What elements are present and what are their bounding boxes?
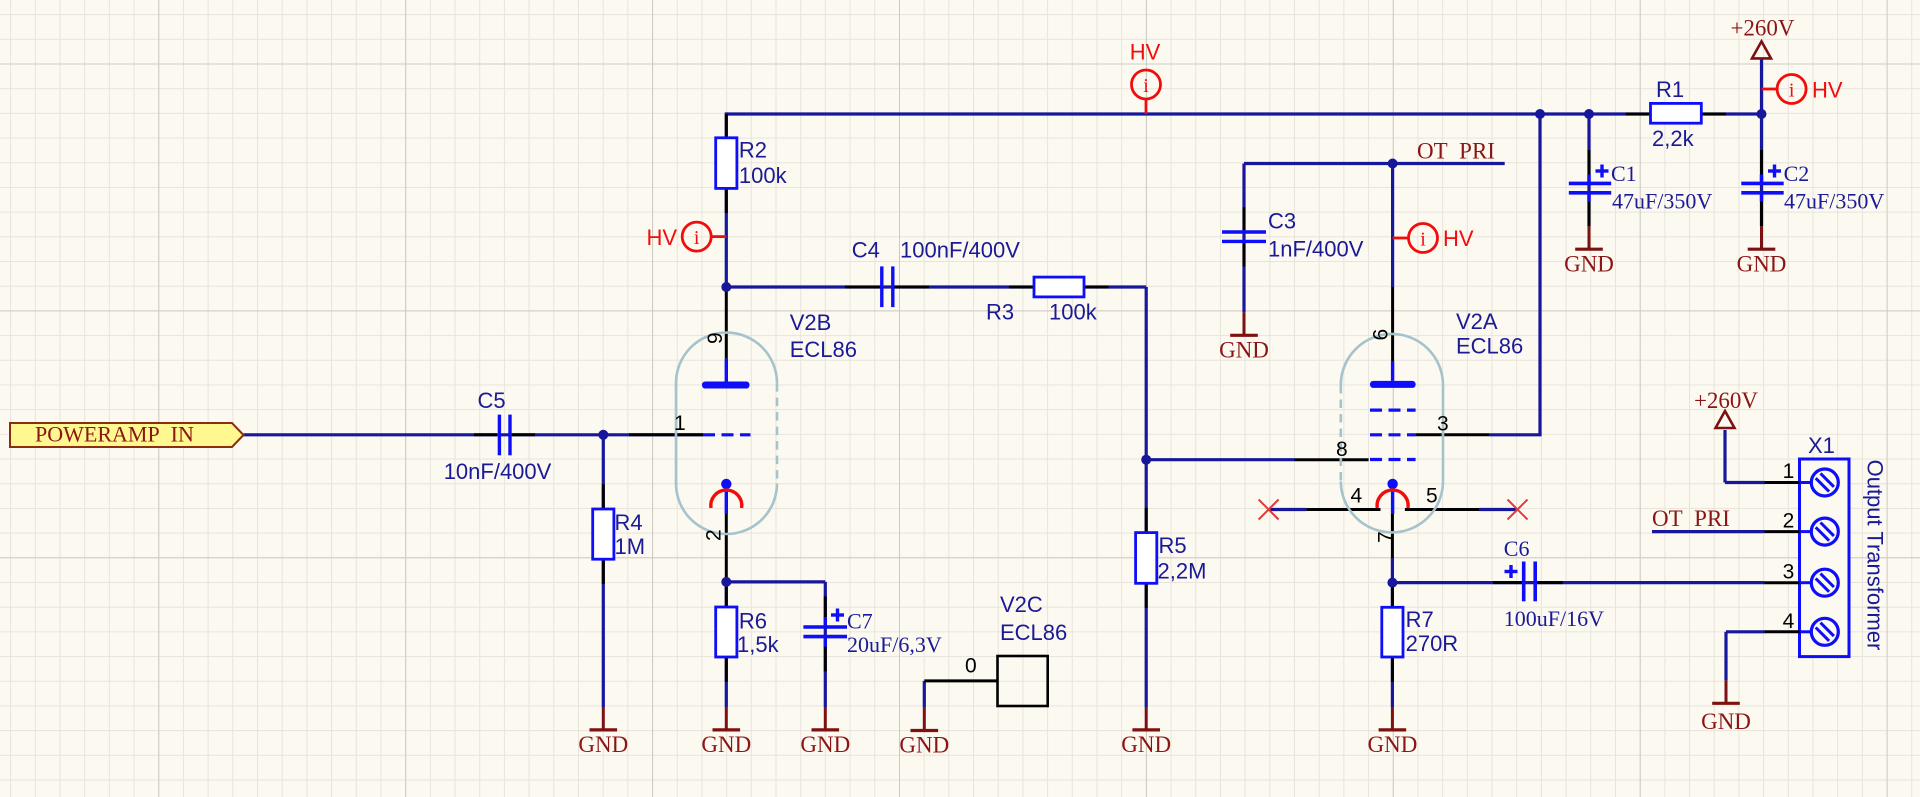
resistor R4 [593, 509, 614, 559]
svg-text:1,5k: 1,5k [737, 632, 780, 657]
svg-text:5: 5 [1426, 485, 1438, 508]
R6 label [739, 609, 767, 634]
svg-text:C2: C2 [1784, 161, 1810, 186]
X1 pin number 3 [1783, 561, 1795, 584]
svg-text:HV: HV [646, 225, 677, 250]
C1 label [1611, 161, 1637, 186]
resistor R7 [1382, 607, 1403, 657]
V2B control grid (dashed) [703, 433, 751, 436]
svg-text:ECL86: ECL86 [790, 337, 857, 362]
resistor R5 [1136, 533, 1157, 584]
svg-text:1: 1 [1783, 460, 1795, 483]
svg-text:20uF/6,3V: 20uF/6,3V [847, 632, 942, 657]
ground (R6) [701, 707, 751, 757]
svg-text:X1: X1 [1808, 433, 1835, 458]
svg-text:ECL86: ECL86 [1000, 620, 1067, 645]
R5 value 2,2M [1158, 559, 1207, 584]
wire heater pin 4 stub [1269, 508, 1307, 511]
svg-text:C7: C7 [847, 609, 873, 634]
ground (C2) [1737, 226, 1787, 276]
wire V2B plate row (junction to C4/R3) [726, 285, 1146, 288]
R1 value 2,2k [1652, 126, 1695, 151]
svg-text:C1: C1 [1611, 161, 1637, 186]
V2A pin number 3 [1437, 413, 1449, 436]
wire R4 branch vertical [602, 435, 605, 707]
C2 label [1784, 161, 1810, 186]
svg-text:ECL86: ECL86 [1456, 334, 1523, 359]
R3 value 100k [1049, 300, 1098, 325]
svg-text:9: 9 [704, 332, 727, 344]
tube pin leads (black) [629, 287, 1489, 583]
wire X1 pin 4 to GND [1726, 632, 1765, 681]
tube V2B envelope [676, 333, 777, 534]
svg-text:+260V: +260V [1694, 388, 1758, 413]
svg-text:7: 7 [1375, 531, 1398, 543]
wire OT_PRI stub to X1 pin 2 [1652, 530, 1765, 533]
V2A part type ECL86 [1456, 334, 1523, 359]
svg-text:GND: GND [899, 733, 949, 758]
R7 label [1406, 607, 1434, 632]
svg-text:C6: C6 [1504, 536, 1530, 561]
power +260V (at X1) [1694, 388, 1758, 428]
X1 pin number 4 [1783, 610, 1795, 633]
V2B heater arc [711, 490, 742, 508]
X1 pin number 2 [1783, 510, 1795, 533]
V2A grids g1 g2 g3 (dashed) [1370, 410, 1416, 459]
svg-text:POWERAMP IN: POWERAMP IN [35, 422, 194, 447]
svg-text:100uF/16V: 100uF/16V [1504, 606, 1604, 631]
svg-text:C5: C5 [478, 388, 506, 413]
V2B part type ECL86 [790, 337, 857, 362]
C5 label [478, 388, 506, 413]
resistor R3 [1034, 277, 1084, 297]
V2A cathode [1387, 479, 1397, 514]
ground (R5) [1121, 707, 1171, 757]
ground (C3) [1219, 312, 1269, 362]
wire junction dots [598, 109, 1766, 588]
HV parameter set (top) [1130, 40, 1161, 115]
svg-text:GND: GND [1121, 732, 1171, 757]
wire C7 branch [726, 582, 825, 707]
svg-text:10nF/400V: 10nF/400V [444, 459, 552, 484]
X1 comment Output Transformer [1863, 460, 1888, 651]
capacitor C2 (polarized) [1741, 165, 1783, 202]
C4 label [852, 238, 880, 263]
C6 label [1504, 536, 1530, 561]
svg-text:V2B: V2B [790, 310, 832, 335]
svg-text:OT PRI: OT PRI [1652, 506, 1730, 531]
wire heater pin 5 stub [1479, 508, 1518, 511]
V2A heater arc [1377, 490, 1408, 508]
capacitor C6 (polarized) [1505, 562, 1536, 602]
svg-text:1M: 1M [615, 534, 646, 559]
net label OT_PRI (at X1) [1652, 506, 1730, 531]
C3 label [1268, 209, 1296, 234]
svg-text:2,2k: 2,2k [1652, 126, 1695, 151]
svg-text:100k: 100k [1049, 300, 1098, 325]
svg-text:V2A: V2A [1456, 309, 1498, 334]
wire C6 row (node to X1 pin 3) [1392, 581, 1764, 584]
R2 value 100k [739, 163, 788, 188]
ground (R7) [1367, 707, 1417, 757]
designator V2C [1000, 592, 1043, 617]
ground (C7) [800, 707, 850, 757]
resistor R6 [716, 607, 737, 657]
R4 label [615, 510, 643, 535]
svg-text:4: 4 [1351, 485, 1363, 508]
capacitor C4 [882, 266, 893, 307]
svg-text:GND: GND [1701, 709, 1751, 734]
svg-text:C4: C4 [852, 238, 880, 263]
svg-text:47uF/350V: 47uF/350V [1784, 189, 1884, 214]
svg-text:GND: GND [701, 732, 751, 757]
R4 value 1M [615, 534, 646, 559]
HV parameter set (+260V rail) [1762, 75, 1843, 104]
no-connect X pin 4 [1259, 500, 1279, 520]
V2A pin number 7 [1375, 531, 1398, 543]
svg-text:GND: GND [1564, 251, 1614, 276]
V2B anode plate [702, 359, 750, 389]
V2B cathode [721, 479, 731, 514]
wire C1 branch [1587, 114, 1590, 226]
wire C3 branch vertical [1242, 164, 1245, 313]
wire OT_PRI upper (C3 row) [1244, 162, 1505, 165]
HV parameter set (V2A) [1393, 224, 1474, 253]
X1 pin number 1 [1783, 460, 1795, 483]
power +260V (top right) [1730, 15, 1794, 58]
svg-text:HV: HV [1812, 78, 1843, 103]
wire V2A pin3 riser [1489, 114, 1541, 435]
wire R3 to mid node vertical [1145, 287, 1148, 460]
svg-text:8: 8 [1336, 438, 1348, 461]
V2A pin number 8 [1336, 438, 1348, 461]
svg-text:R2: R2 [739, 138, 767, 163]
svg-text:GND: GND [1367, 732, 1417, 757]
designator V2A [1456, 309, 1498, 334]
V2B pin number 2 [703, 529, 726, 541]
resistor R1 [1651, 103, 1702, 123]
C6 value 100uF/16V [1504, 606, 1604, 631]
C2 value 47uF/350V [1784, 189, 1884, 214]
wire V2A plate branch vertical [1391, 164, 1394, 288]
svg-text:GND: GND [1219, 337, 1269, 362]
svg-text:R5: R5 [1159, 533, 1187, 558]
V2C pin number 0 [965, 655, 977, 678]
wire input row (port to V2B pin 1) [244, 433, 704, 436]
wire mid node to V2A pin 8 [1146, 458, 1294, 461]
svg-text:HV: HV [1443, 226, 1474, 251]
svg-text:0: 0 [965, 655, 977, 678]
V2C pin 0 [924, 679, 997, 682]
wire +260V to X1 pin 1 [1725, 430, 1765, 483]
ground (C1) [1564, 226, 1614, 276]
V2A anode plate [1370, 361, 1416, 388]
wire C2 branch [1760, 114, 1763, 226]
svg-text:3: 3 [1437, 413, 1449, 436]
svg-text:i: i [1143, 75, 1149, 97]
wire R2 branch vertical [725, 112, 728, 287]
tube section V2C box [998, 656, 1048, 706]
V2B pin number 9 [704, 332, 727, 344]
V2A pin number 6 [1370, 329, 1393, 341]
wire V2C pin 0 to GND [923, 681, 926, 708]
svg-text:GND: GND [800, 732, 850, 757]
R2 label [739, 138, 767, 163]
svg-text:1: 1 [674, 412, 686, 435]
capacitor C3 [1222, 232, 1266, 241]
capacitor C1 (polarized) [1569, 165, 1611, 202]
R5 label [1159, 533, 1187, 558]
designator X1 [1808, 433, 1835, 458]
svg-text:270R: 270R [1406, 631, 1459, 656]
svg-text:C3: C3 [1268, 209, 1296, 234]
port POWERAMP_IN [10, 422, 244, 448]
svg-text:47uF/350V: 47uF/350V [1612, 189, 1712, 214]
svg-text:100nF/400V: 100nF/400V [900, 238, 1020, 263]
wire V2A cathode to R7/C6 node [1391, 558, 1394, 707]
V2A pin number 5 [1426, 485, 1438, 508]
C5 value 10nF/400V [444, 459, 552, 484]
designator V2B [790, 310, 832, 335]
wire V2B cathode to R6/C7 node [725, 583, 728, 707]
svg-text:2,2M: 2,2M [1158, 559, 1207, 584]
V2B pin number 1 [674, 412, 686, 435]
C3 value 1nF/400V [1268, 237, 1364, 262]
resistor R2 [716, 138, 737, 189]
svg-text:3: 3 [1783, 561, 1795, 584]
svg-text:100k: 100k [739, 163, 788, 188]
svg-text:V2C: V2C [1000, 592, 1043, 617]
net label OT_PRI (upper) [1417, 139, 1495, 164]
svg-text:Output Transformer: Output Transformer [1863, 460, 1888, 651]
C7 value 20uF/6,3V [847, 632, 942, 657]
ground (V2C) [899, 708, 949, 758]
capacitor C5 [499, 415, 510, 456]
svg-text:2: 2 [1783, 510, 1795, 533]
svg-text:R1: R1 [1656, 77, 1684, 102]
svg-text:HV: HV [1130, 40, 1161, 65]
svg-text:i: i [1789, 80, 1795, 102]
svg-text:2: 2 [703, 529, 726, 541]
svg-text:OT PRI: OT PRI [1417, 139, 1495, 164]
tube V2A envelope [1341, 334, 1443, 532]
C7 label [847, 609, 873, 634]
svg-text:1nF/400V: 1nF/400V [1268, 237, 1364, 262]
connector X1 [1765, 459, 1850, 657]
svg-text:GND: GND [578, 732, 628, 757]
svg-text:R7: R7 [1406, 607, 1434, 632]
R6 value 1,5k [737, 632, 780, 657]
svg-text:+260V: +260V [1730, 15, 1794, 40]
no-connect X pin 5 [1508, 500, 1528, 520]
svg-text:6: 6 [1370, 329, 1393, 341]
wire +260V to bus [1760, 58, 1763, 114]
wire HV bus top [726, 112, 1761, 115]
svg-text:GND: GND [1737, 251, 1787, 276]
R1 label [1656, 77, 1684, 102]
R3 label [986, 300, 1014, 325]
svg-text:i: i [694, 227, 700, 249]
capacitor C7 (polarized) [803, 609, 847, 647]
svg-text:i: i [1420, 229, 1426, 251]
C1 value 47uF/350V [1612, 189, 1712, 214]
V2C part type ECL86 [1000, 620, 1067, 645]
R7 value 270R [1406, 631, 1459, 656]
svg-text:R3: R3 [986, 300, 1014, 325]
svg-text:R6: R6 [739, 609, 767, 634]
V2A pin number 4 [1351, 485, 1363, 508]
ground (R4) [578, 707, 628, 757]
wire R5 branch vertical [1145, 460, 1148, 707]
svg-text:4: 4 [1783, 610, 1795, 633]
ground (X1 pin 4) [1701, 680, 1751, 734]
HV parameter set (R2) [646, 222, 726, 251]
svg-text:R4: R4 [615, 510, 643, 535]
component pin leads (black) [474, 114, 1762, 682]
C4 value 100nF/400V [900, 238, 1020, 263]
